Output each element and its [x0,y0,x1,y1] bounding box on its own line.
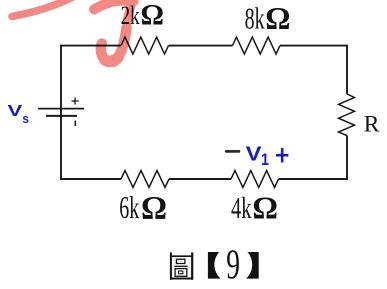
watermark top bar stroke [94,1,134,10]
voltage source Vs battery: bottom plate [46,115,77,117]
label V1 (blue) [246,142,270,169]
watermark bowl bottom thick part [105,58,118,62]
polarity plus sign (blue) [276,148,288,163]
wire: right vertical lower [346,136,348,180]
wire: top-right segment [280,45,347,47]
battery plus sign [72,97,79,104]
resistor R (vertical zigzag) [339,94,355,136]
label 8kOhm [245,1,291,36]
polarity minus sign (dark) [226,150,239,153]
wire: top-left segment [60,45,121,47]
watermark bowl hook stroke [101,28,127,62]
voltage source Vs battery: top plate [38,108,84,110]
svg-text:V: V [8,103,23,120]
caption right bracket [246,252,259,279]
watermark descender stroke [126,1,132,30]
resistor 8kOhm (zigzag) [233,37,281,54]
svg-text:1: 1 [261,151,269,169]
resistor 2kOhm (zigzag) [121,37,169,54]
svg-text:V: V [246,142,262,165]
svg-text:s: s [22,111,29,126]
svg-text:6k: 6k [119,189,140,225]
label 2kOhm [121,0,164,32]
caption glyph TU (drawn) [170,252,193,279]
wire: right vertical upper [346,45,348,94]
watermark pink brush strokes [12,0,134,62]
resistor 4kOhm (zigzag) [231,171,279,188]
wire: top-middle segment [169,45,233,47]
svg-text:Ω: Ω [252,189,278,225]
wire: bottom-left segment [60,178,121,180]
svg-text:Ω: Ω [141,190,167,226]
battery minus marker [74,121,76,127]
wire: bottom-right segment [279,178,348,180]
label Vs (blue) [8,103,30,126]
svg-text:Ω: Ω [141,0,164,32]
svg-text:Ω: Ω [265,1,290,36]
svg-text:8k: 8k [245,1,266,35]
caption left bracket [208,252,221,279]
svg-text:R: R [364,111,380,137]
svg-text:9: 9 [226,241,240,288]
label 4kOhm [231,189,278,225]
wire: left vertical (through battery) [60,45,62,180]
label 6kOhm [119,189,167,226]
resistor 6kOhm (zigzag) [121,171,169,188]
wire: bottom-middle segment [169,178,231,180]
svg-text:4k: 4k [231,191,252,225]
watermark swash stroke [12,0,73,17]
